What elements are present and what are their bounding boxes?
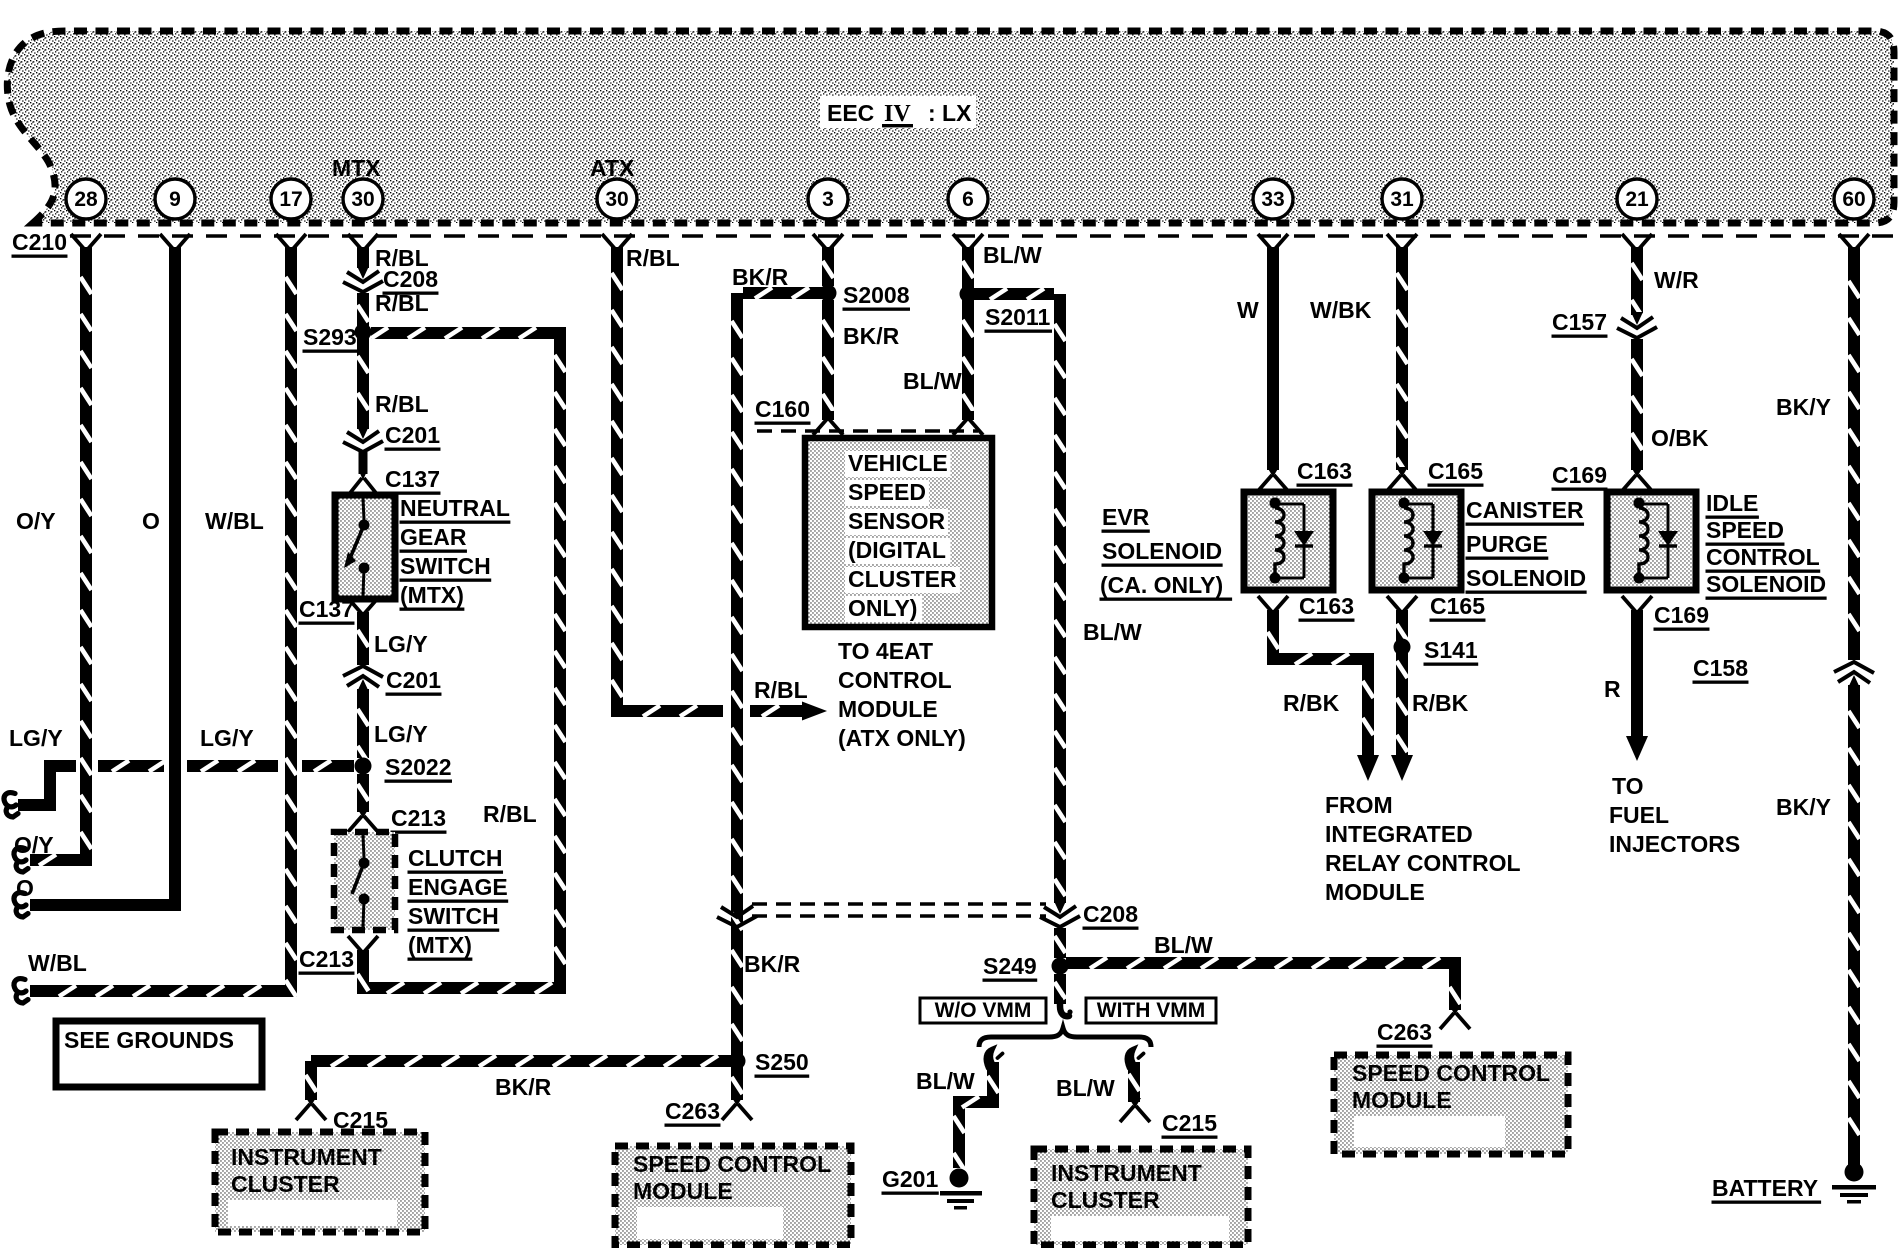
svg-text:O: O [142,508,160,534]
label (MTX) [408,932,473,961]
connector C163 bottom [1258,596,1288,620]
connector C137 lower [348,598,378,622]
connector C210 funnel pin 31 [1387,234,1417,258]
svg-text:BK/R: BK/R [732,264,789,290]
label BL/W [983,242,1042,268]
svg-text:S249: S249 [983,953,1037,979]
connector C263 right [1440,1005,1470,1029]
canister purge solenoid box [1372,492,1461,590]
label C263 [1377,1019,1433,1048]
neutral gear switch contacts [344,498,370,596]
connector C210 funnel pin 30 [348,234,378,258]
label C201 [386,667,442,696]
svg-text:SPEED: SPEED [1706,517,1784,543]
wire W/BL from pin 17 [30,247,297,997]
continuation hook O [14,893,28,917]
label LG/Y [9,725,63,751]
svg-text:R/BL: R/BL [375,290,429,316]
label BK/R [495,1074,552,1100]
label TO 4EAT [838,638,933,664]
idle speed control solenoid box [1607,492,1696,590]
wire LG/Y left end [18,766,76,805]
label (ATX ONLY) [838,725,966,751]
label C158 [1693,655,1749,684]
label SWITCH [400,553,492,582]
ground battery [1832,1163,1876,1204]
svg-text:BL/W: BL/W [983,242,1042,268]
svg-text:BL/W: BL/W [1154,932,1213,958]
pin 28 [66,179,106,219]
connector C160 funnel [813,411,843,435]
svg-text:C263: C263 [1377,1019,1432,1045]
arrow R/BK to relay module right [1391,755,1413,781]
svg-text:BK/R: BK/R [495,1074,552,1100]
wire R from idle solenoid [1631,610,1643,737]
label W/BL [205,508,264,534]
svg-text:30: 30 [351,188,374,211]
svg-text:BL/W: BL/W [916,1068,975,1094]
svg-text:C208: C208 [383,266,438,292]
wire R/BK from EVR [1268,610,1374,756]
label W/BL [28,950,87,976]
label NEUTRAL [400,495,511,524]
pin 17 [271,179,311,219]
wire BK/Y lower [1849,685,1860,1165]
wire BK/R pin 3 [823,247,834,286]
svg-text:CONTROL: CONTROL [838,667,952,693]
label MTX [332,155,381,181]
svg-text:IV: IV [884,101,911,127]
pin 9 [155,179,195,219]
wire R/BL pin 30 MTX [357,247,369,268]
svg-text:LG/Y: LG/Y [9,725,63,751]
wire LG/Y [358,612,369,665]
svg-text:INTEGRATED: INTEGRATED [1325,821,1473,847]
svg-text:MODULE: MODULE [633,1178,733,1204]
svg-text:R/BK: R/BK [1412,690,1469,716]
label C163 [1297,458,1353,487]
svg-text:C169: C169 [1552,462,1607,488]
label SENSOR [845,508,948,535]
label O/Y [14,832,54,858]
svg-text:PURGE: PURGE [1466,531,1548,557]
svg-text:C165: C165 [1428,458,1483,484]
svg-text:C215: C215 [1162,1110,1217,1136]
continuation hook LG/Y [4,793,18,817]
label C201 [385,422,441,451]
svg-text:CANISTER: CANISTER [1466,497,1584,523]
svg-text:ENGAGE: ENGAGE [408,874,508,900]
label SOLENOID [1706,571,1827,600]
wire BK/R drop [306,1061,317,1100]
label ONLY) [845,595,923,622]
svg-text:INSTRUMENT: INSTRUMENT [231,1144,382,1170]
connector C215 right [1120,1098,1150,1122]
pin 33 [1253,179,1293,219]
arrow R to fuel injectors [1626,736,1648,761]
svg-text:C165: C165 [1430,593,1485,619]
svg-text:INJECTORS: INJECTORS [1609,831,1740,857]
pin 6 [948,179,988,219]
wire W/BK from pin 31 [1397,247,1408,475]
connector C210 funnel pin 60 [1839,234,1869,258]
label box WITH VMM [1086,998,1216,1023]
svg-text:S293: S293 [303,324,357,350]
label C137 [299,596,355,625]
connector C160 funnel right [953,411,983,435]
svg-text:SWITCH: SWITCH [408,903,499,929]
label (CA. ONLY) [1100,572,1233,601]
label S2022 [385,754,452,783]
wire BL/W to instrument cluster [1129,1062,1140,1102]
svg-text:(MTX): (MTX) [408,932,472,958]
label CANISTER [1466,497,1585,526]
label MODULE [1325,879,1425,905]
svg-text:28: 28 [74,188,98,211]
svg-text:CLUSTER: CLUSTER [231,1171,340,1197]
continuation hook O/Y [14,848,28,872]
svg-text:R/BL: R/BL [626,245,680,271]
connector C163 top [1258,467,1288,491]
svg-text:C158: C158 [1693,655,1748,681]
pin 21 [1617,179,1657,219]
brace [979,1028,1151,1047]
label BL/W [916,1068,975,1094]
connector C137 [350,470,376,493]
svg-text:EEC: EEC [827,100,874,126]
svg-text:(MTX): (MTX) [400,582,464,608]
label BL/W [903,368,962,394]
label C210 [12,229,68,258]
label S249 [983,953,1038,982]
svg-text:G201: G201 [882,1166,938,1192]
pin 30 [343,179,383,219]
clutch engage switch box [334,832,395,930]
ground G201 [940,1169,982,1210]
label ENGAGE [408,874,509,903]
svg-text:CLUTCH: CLUTCH [408,845,503,871]
label ATX [590,155,635,181]
svg-text:SPEED CONTROL: SPEED CONTROL [633,1151,831,1177]
label BL/W [1154,932,1213,958]
connector C158 [1834,662,1874,688]
label EVR [1102,504,1150,533]
svg-text:3: 3 [822,188,834,211]
connector C210 funnel pin 33 [1258,234,1288,258]
splice S250 [729,1053,746,1070]
svg-text:SENSOR: SENSOR [848,508,946,534]
svg-text:SOLENOID: SOLENOID [1466,565,1586,591]
label R/BK [1412,690,1469,716]
label S250 [755,1049,810,1078]
EVR solenoid box [1244,492,1333,590]
label S2008 [843,282,910,311]
label BK/R [732,264,789,290]
svg-text:: LX: : LX [928,100,972,126]
wire BK/Y from pin 60 [1849,247,1860,660]
svg-text:S2011: S2011 [985,304,1050,330]
svg-text:9: 9 [169,188,181,211]
label LG/Y [200,725,254,751]
label INTEGRATED [1325,821,1473,847]
svg-text:BL/W: BL/W [1056,1075,1115,1101]
arrow R/BK to relay module [1357,755,1379,781]
svg-text:BK/R: BK/R [744,951,801,977]
svg-text:INSTRUMENT: INSTRUMENT [1051,1160,1202,1186]
svg-text:SOLENOID: SOLENOID [1102,538,1222,564]
wire R/BL narrow [359,452,368,474]
label CONTROL [838,667,952,693]
label CLUSTER [845,566,960,593]
clutch engage switch contacts [352,835,370,927]
continuation hook BL/W [986,1050,1002,1069]
connector C165 top [1387,467,1417,491]
label SWITCH [408,903,500,932]
svg-text:BL/W: BL/W [1083,619,1142,645]
svg-text:R/BL: R/BL [375,391,429,417]
svg-text:17: 17 [279,188,302,211]
svg-text:TO 4EAT: TO 4EAT [838,638,933,664]
neutral gear switch box [335,495,395,599]
svg-text:LG/Y: LG/Y [374,631,428,657]
label C215 [333,1107,389,1136]
label CLUTCH [408,845,504,874]
svg-text:BK/Y: BK/Y [1776,394,1831,420]
svg-text:C160: C160 [755,396,810,422]
svg-text:C263: C263 [665,1098,720,1124]
svg-text:S141: S141 [1424,637,1478,663]
label R/BL [375,391,429,417]
EEC IV module box [7,31,1894,223]
connector C210 funnel pin 3 [813,234,843,258]
label C169 [1552,462,1608,491]
svg-text:BATTERY: BATTERY [1712,1175,1818,1201]
speed control module box right [1334,1055,1568,1154]
label BK/R [744,951,801,977]
wire BK/R [823,300,834,420]
svg-text:CLUSTER: CLUSTER [1051,1187,1160,1213]
continuation hook BL/W right [1127,1050,1143,1069]
connector C210 dashed line [70,234,1894,237]
svg-text:IDLE: IDLE [1706,490,1758,516]
label MODULE [838,696,938,722]
svg-text:C208: C208 [1083,901,1138,927]
svg-text:SOLENOID: SOLENOID [1706,571,1826,597]
svg-text:TO: TO [1612,773,1644,799]
svg-text:WITH VMM: WITH VMM [1097,999,1205,1022]
label C165 [1430,593,1486,622]
wire BL/W to G201 [954,1062,999,1170]
svg-text:33: 33 [1261,188,1284,211]
splice S293 [355,324,372,341]
label C165 [1428,458,1484,487]
label O [16,875,34,901]
label BL/W [1083,619,1142,645]
label C213 [391,805,447,834]
svg-text:CONTROL: CONTROL [1706,544,1820,570]
svg-text:21: 21 [1625,188,1649,211]
svg-text:R/BL: R/BL [754,677,808,703]
svg-text:EVR: EVR [1102,504,1150,530]
svg-text:30: 30 [605,188,628,211]
connector C208 right [1040,901,1080,927]
label RELAY CONTROL [1325,850,1521,876]
pin 31 [1382,179,1422,219]
svg-text:S2022: S2022 [385,754,452,780]
wire BL/W pin 6 [963,247,974,288]
svg-text:FUEL: FUEL [1609,802,1669,828]
wire R/BL [358,338,369,429]
svg-text:SWITCH: SWITCH [400,553,491,579]
label W/BK [1310,297,1372,323]
connector C169 top [1622,467,1652,491]
label GEAR [400,524,467,553]
svg-text:C201: C201 [386,667,441,693]
vehicle speed sensor box [805,438,992,627]
svg-text:C163: C163 [1299,593,1354,619]
svg-text:BK/Y: BK/Y [1776,794,1831,820]
connector C208 double dashed line [752,904,1046,916]
pin 60 [1834,179,1874,219]
svg-text:MODULE: MODULE [838,696,938,722]
wire R/BL [358,293,369,327]
svg-text:BK/R: BK/R [843,323,900,349]
svg-text:C163: C163 [1297,458,1352,484]
wire BL/W long vertical [1055,294,1066,903]
connector C208 [343,266,383,292]
wire LG/Y [358,689,369,763]
idle speed control solenoid coil and diode [1634,498,1679,584]
label C208 [383,266,439,295]
svg-text:MODULE: MODULE [1325,879,1425,905]
label (DIGITAL [845,537,951,564]
svg-text:SPEED CONTROL: SPEED CONTROL [1352,1060,1550,1086]
svg-text:S2008: S2008 [843,282,910,308]
label R/BL [626,245,680,271]
label O [142,508,160,534]
label S2011 [985,304,1052,333]
label R/BL [483,801,537,827]
label (MTX) [400,582,465,611]
label SPEED [845,479,929,506]
svg-text:ATX: ATX [590,155,635,181]
splice S249 [1052,958,1069,975]
wire BK/R stub [743,288,822,299]
label FROM [1325,792,1393,818]
wire BK/R to speed control module [732,1067,743,1100]
connector C210 funnel pin 28 [71,234,101,258]
pin 3 [808,179,848,219]
label W/R [1654,267,1699,293]
svg-text:O/Y: O/Y [16,508,56,534]
pin 30 [597,179,637,219]
label SOLENOID [1102,538,1223,567]
label C169 [1654,602,1710,631]
svg-text:R/BL: R/BL [483,801,537,827]
label C263 [665,1098,721,1127]
wire BL/W stub [974,289,1054,300]
svg-text:C210: C210 [12,229,67,255]
label BK/R [843,323,900,349]
label R/BL [375,245,429,271]
label SPEED [1706,517,1785,546]
wire hook below S249 [1060,1000,1073,1016]
label R/BK [1283,690,1340,716]
label TO [1612,773,1644,799]
connector C215 left [296,1096,326,1120]
connector C160 dashed line [757,429,978,432]
svg-text:60: 60 [1842,188,1865,211]
label LG/Y [374,631,428,657]
wire BK/R bottom [311,1056,731,1067]
svg-text:O: O [16,875,34,901]
EVR solenoid coil and diode [1270,498,1315,584]
wire R/BK from canister solenoid [1397,610,1408,756]
svg-text:NEUTRAL: NEUTRAL [400,495,510,521]
wire R/BL loop [358,328,566,994]
connector C210 funnel pin 9 [160,234,190,258]
label FUEL [1609,802,1669,828]
connector C213 [348,808,378,832]
wire BK/R long vertical [732,293,743,1061]
splice S2011 [960,286,977,303]
label R [1604,676,1621,702]
connector C263 left [722,1096,752,1120]
label LG/Y [374,721,428,747]
label C163 [1299,593,1355,622]
label S293 [303,324,358,353]
label C213 [299,946,355,975]
label VEHICLE [845,450,951,477]
instrument cluster box right [1034,1149,1248,1245]
svg-text:W/R: W/R [1654,267,1699,293]
svg-text:BL/W: BL/W [903,368,962,394]
label box W/O VMM [920,998,1046,1023]
svg-text:MODULE: MODULE [1352,1087,1452,1113]
connector C165 bottom [1387,596,1417,620]
label C215 [1162,1110,1218,1139]
wire BL/W stub below S249 [1055,974,1066,1004]
svg-text:W: W [1237,297,1259,323]
label IDLE [1706,490,1759,519]
instrument cluster box left [215,1132,425,1232]
label C157 [1552,309,1608,338]
splice S141 [1394,639,1411,656]
wire R/BL arrow shaft [750,706,804,717]
svg-text:MTX: MTX [332,155,381,181]
label BL/W [1056,1075,1115,1101]
svg-text:FROM: FROM [1325,792,1393,818]
label R/BL [754,677,808,703]
svg-text:C137: C137 [385,466,440,492]
svg-text:W/O VMM: W/O VMM [935,999,1032,1022]
label R/BL [375,290,429,316]
svg-text:C213: C213 [299,946,354,972]
wire W/R from pin 21 [1632,247,1643,317]
connector C201 [343,426,383,452]
wire BL/W [963,300,974,420]
svg-text:LG/Y: LG/Y [200,725,254,751]
svg-text:(CA. ONLY): (CA. ONLY) [1100,572,1223,598]
svg-text:O/Y: O/Y [14,832,54,858]
connector C169 bottom [1622,596,1652,620]
connector C210 funnel pin 21 [1622,234,1652,258]
svg-text:C169: C169 [1654,602,1709,628]
wire O from pin 9 [30,247,175,905]
svg-text:CLUSTER: CLUSTER [848,566,957,592]
svg-text:(ATX ONLY): (ATX ONLY) [838,725,966,751]
svg-text:C213: C213 [391,805,446,831]
